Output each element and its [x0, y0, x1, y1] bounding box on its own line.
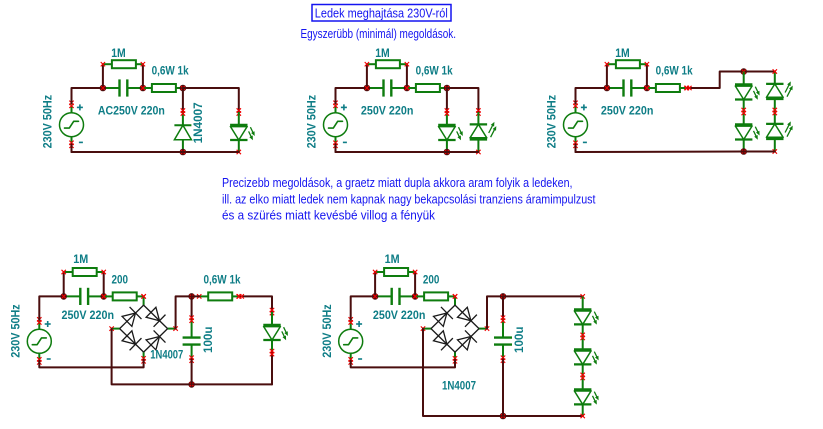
wire source top to node (1) [72, 88, 103, 103]
capacitor 220n (4) [64, 288, 104, 305]
wire source top to node (2) [336, 88, 367, 103]
label 250V 220n (4) [62, 310, 115, 322]
wire riser left (1) [102, 64, 104, 88]
label 0,6W 1k (3) [656, 66, 694, 78]
node junction left (5) [372, 293, 379, 300]
wire source top (4) [39, 296, 63, 320]
wire source bottom to bridge (4) [39, 360, 143, 368]
AC source G3 230V 50Hz [564, 101, 588, 148]
svg-text:230V 50Hz: 230V 50Hz [43, 95, 55, 149]
node plus rail (4) [188, 293, 195, 300]
resistor 200 (5) [413, 292, 457, 300]
resistor R1M (4) [62, 268, 106, 276]
svg-text:ill. az elko miatt ledek nem k: ill. az elko miatt ledek nem kapnak nagy… [222, 192, 596, 206]
wire source bottom to bridge (5) [351, 360, 455, 368]
node junction left (2) [364, 85, 371, 92]
label 200 (5) [423, 274, 440, 286]
label 250V 220n (2) [361, 105, 414, 117]
node junction right (3) [644, 85, 651, 92]
resistor R1M (3) [605, 60, 649, 68]
wire 1k to LED array (3) [684, 72, 775, 91]
AC source G4 [27, 317, 51, 364]
node bottom (1) [180, 149, 187, 156]
svg-text:200: 200 [423, 274, 440, 286]
label 0,6W 1k (4) [204, 274, 242, 286]
node minus rail (5) [500, 413, 507, 420]
wire riser left (5) [374, 272, 376, 296]
label 250V 220n (3) [601, 105, 654, 117]
LED2 (5) [574, 333, 599, 377]
bridge rectifier 1N4007 (4) [109, 294, 177, 363]
node junction left (1) [100, 85, 107, 92]
label 230V 50Hz (3) [547, 95, 559, 149]
resistor 1k (1) [141, 84, 185, 92]
capacitor 220n (1) [103, 79, 143, 96]
node junction left (3) [604, 85, 611, 92]
svg-text:250V 220n: 250V 220n [62, 310, 115, 322]
wire bridge plus to node (4) [176, 296, 192, 328]
svg-text:100u: 100u [203, 327, 215, 354]
svg-text:1N4007: 1N4007 [442, 381, 476, 393]
wire riser left (2) [366, 64, 368, 88]
svg-text:0,6W 1k: 0,6W 1k [416, 66, 454, 78]
resistor R1M (5) [373, 268, 417, 276]
title box [312, 5, 451, 22]
label 0,6W 1k (1) [152, 66, 190, 78]
node after 1k (1) [180, 85, 187, 92]
resistor 1k (3) [645, 84, 689, 92]
wire bottom rail (2) [336, 151, 479, 153]
svg-text:1M: 1M [615, 48, 630, 60]
svg-text:100u: 100u [514, 327, 526, 354]
paragraph line 3 [222, 209, 436, 223]
title text [315, 7, 448, 21]
wire 100u to minus rail (4) [191, 359, 193, 384]
node after 1k (2) [444, 85, 451, 92]
wire riser right (5) [414, 272, 416, 296]
wire source top to node (3) [576, 88, 607, 103]
svg-text:Precizebb megoldások, a graetz: Precizebb megoldások, a graetz miatt dup… [222, 176, 573, 190]
label 1M (3) [615, 48, 630, 60]
resistor 0,6W 1k (4) [197, 292, 241, 300]
label 230V 50Hz (2) [307, 95, 319, 149]
wire LED to minus rail (4) [270, 349, 274, 385]
svg-text:0,6W 1k: 0,6W 1k [152, 66, 190, 78]
svg-text:AC250V 220n: AC250V 220n [98, 105, 165, 117]
node junction left (4) [60, 293, 67, 300]
subtitle [301, 27, 457, 41]
svg-text:és a szürés miatt kevésbé vill: és a szürés miatt kevésbé villog a fényü… [222, 209, 436, 223]
svg-text:Ledek meghajtása 230V-ról: Ledek meghajtása 230V-ról [315, 7, 448, 21]
diode D1 1N4007 (1) [174, 108, 191, 152]
LED1 (5) [574, 296, 599, 336]
wire 100u to minus rail (5) [502, 359, 504, 416]
svg-text:230V 50Hz: 230V 50Hz [322, 304, 334, 358]
svg-text:1M: 1M [375, 48, 390, 60]
wire bridge plus to node (5) [487, 296, 503, 328]
svg-text:1N4007: 1N4007 [150, 350, 183, 362]
wire to 100u (4) [191, 296, 193, 319]
svg-text:230V 50Hz: 230V 50Hz [547, 95, 559, 149]
capacitor 220n (5) [375, 288, 415, 305]
wire riser right (3) [646, 64, 648, 88]
svg-text:0,6W 1k: 0,6W 1k [204, 274, 242, 286]
wire riser left (3) [606, 64, 608, 88]
wire source top (5) [351, 296, 375, 320]
resistor R1M (1) [101, 60, 145, 68]
svg-text:1M: 1M [385, 254, 400, 266]
label 0,6W 1k (2) [416, 66, 454, 78]
LED2 up (2) [470, 112, 497, 154]
capacitor 100u (5) [494, 316, 512, 363]
node junction right (4) [100, 293, 107, 300]
LED3 up (3) [766, 69, 793, 111]
LED1 (1) [230, 112, 255, 154]
paragraph line 2 [222, 192, 596, 206]
resistor 200 (4) [102, 292, 146, 300]
wire to 100u (5) [502, 296, 504, 319]
label 250V 220n (5) [373, 310, 426, 322]
label 100u (5) [514, 327, 526, 354]
LED3 (5) [574, 373, 599, 419]
node plus rail (5) [500, 293, 507, 300]
LED1 (4) [263, 312, 288, 352]
label 1M (5) [385, 254, 400, 266]
svg-text:1M: 1M [111, 48, 126, 60]
label 1N4007 (4) [150, 350, 183, 362]
label 1M (1) [111, 48, 126, 60]
wire riser right (4) [103, 272, 105, 296]
wire source bottom (1) [71, 144, 73, 152]
bridge rectifier 1N4007 (5) [421, 294, 489, 363]
wire bridge minus rail (5) [423, 329, 583, 416]
label 230V 50Hz (4) [11, 304, 23, 358]
AC source G2 230V 50Hz [324, 101, 348, 148]
AC source G1 230V 50Hz [60, 101, 84, 148]
LED4 up (3) [766, 108, 793, 154]
label 230V 50Hz (1) [43, 95, 55, 149]
wire to LED1 (2) [446, 88, 448, 112]
svg-text:Egyszerübb (minimál) megoldáso: Egyszerübb (minimál) megoldások. [301, 27, 457, 41]
svg-text:1M: 1M [73, 254, 88, 266]
node minus rail (4) [188, 381, 195, 388]
svg-text:200: 200 [112, 274, 129, 286]
wire to diode (1) [182, 88, 184, 112]
node bottom (2) [444, 149, 451, 156]
label 1M (2) [375, 48, 390, 60]
svg-text:250V 220n: 250V 220n [373, 310, 426, 322]
wire riser left (4) [63, 272, 65, 296]
LED2 down (3) [735, 108, 760, 152]
wire 1k to LED (4) [237, 294, 275, 315]
LED1 down (2) [438, 108, 463, 152]
wire node to 1k (4) [192, 295, 200, 297]
svg-text:1N4007: 1N4007 [193, 102, 205, 143]
label 100u (4) [203, 327, 215, 354]
wire riser right (1) [142, 64, 144, 88]
svg-text:230V 50Hz: 230V 50Hz [11, 304, 23, 358]
resistor 1k (2) [405, 84, 449, 92]
node junction right (2) [404, 85, 411, 92]
label 230V 50Hz (5) [322, 304, 334, 358]
wire bridge minus rail (4) [112, 329, 272, 385]
svg-text:250V 220n: 250V 220n [601, 105, 654, 117]
svg-text:0,6W 1k: 0,6W 1k [656, 66, 694, 78]
label AC250V 220n (1) [98, 105, 165, 117]
node bottom (3) [740, 148, 747, 155]
svg-text:230V 50Hz: 230V 50Hz [307, 95, 319, 149]
capacitor 100u (4) [183, 316, 201, 363]
capacitor 220n (2) [367, 79, 407, 96]
wire node to LEDs (5) [503, 294, 585, 298]
wire riser right (2) [406, 64, 408, 88]
node junction right (1) [140, 85, 147, 92]
node junction right (5) [412, 293, 419, 300]
wire bottom rail (1) [72, 151, 239, 153]
wire to LED (1) [183, 88, 241, 116]
label 200 (4) [112, 274, 129, 286]
label 1N4007 (5) [442, 381, 476, 393]
AC source G5 [339, 317, 363, 364]
node top rail (3) [740, 68, 747, 75]
resistor R1M (2) [365, 60, 409, 68]
LED1 down (3) [735, 72, 760, 112]
wire bottom rail (3) [576, 151, 775, 154]
wire source bottom (2) [335, 144, 337, 152]
capacitor 220n (3) [607, 79, 647, 96]
label 1N4007 (1) [193, 102, 205, 143]
wire to LED2 (2) [447, 88, 481, 116]
paragraph line 1 [222, 176, 573, 190]
wire source bottom (3) [575, 144, 577, 152]
svg-text:250V 220n: 250V 220n [361, 105, 414, 117]
label 1M (4) [73, 254, 88, 266]
